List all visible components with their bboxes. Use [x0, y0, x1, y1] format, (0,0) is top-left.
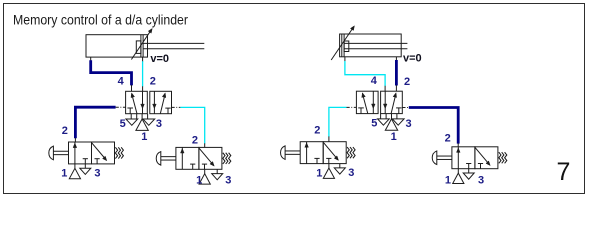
valve 1S2 left box flow arrow 1-2 [181, 147, 185, 169]
valve 1S1 port1 stub [74, 164, 76, 168]
svg-text:1: 1 [445, 174, 451, 186]
label 3 valve 1S1 [94, 167, 100, 179]
svg-text:2: 2 [150, 75, 156, 87]
valve 2S2 pushbutton [432, 151, 452, 165]
valve 1V left box blocked port 5 (T) [127, 108, 133, 114]
border frame [4, 4, 585, 194]
svg-text:3: 3 [406, 118, 412, 130]
valve 1V pilot line 12 (dash-dot) [172, 106, 181, 108]
wire 2S1 port2 to 2V pilot14 (cyan) [329, 107, 347, 141]
svg-text:5: 5 [371, 117, 377, 129]
valve 1S1 right box [92, 142, 115, 164]
valve 2S2 supply triangle port 1 [453, 173, 464, 183]
svg-text:2: 2 [192, 134, 198, 146]
svg-text:2: 2 [404, 76, 410, 88]
svg-text:3: 3 [156, 118, 162, 130]
valve 2V pilot line 14 (dash-dot) [347, 106, 357, 108]
label 1 valve 1V [141, 131, 147, 143]
label 5 valve 1V [120, 118, 126, 130]
valve 1S2 right box blocked port 1 (T) [202, 164, 207, 169]
valve 1V right box [150, 91, 172, 113]
valve 2V left box [356, 91, 378, 113]
valve 2V left box flow line with down arrow [372, 91, 376, 113]
cylinder 1A cushion [136, 41, 141, 54]
valve 1V right box flow line with down arrow [153, 91, 157, 113]
wire cyl-2A right port to 2V port2 (navy) [395, 60, 398, 91]
valve 2S2 left box blocked port 3 (T) [466, 164, 471, 169]
valve 2S2 port3 stub [468, 169, 470, 173]
valve 1V supply triangle port 1 [136, 119, 148, 130]
valve 2V exhaust triangle port 3 [392, 119, 404, 125]
valve 2S1 right box exhaust arrow 2-3 [324, 143, 339, 161]
wire 1S1 port2 to 1V pilot14 (navy) [75, 107, 115, 142]
cylinder 2A piston [342, 34, 344, 57]
wire cyl-2A left port to 2V port4 (cyan) [345, 61, 385, 91]
svg-text:2: 2 [314, 125, 320, 137]
cylinder 1A piston [141, 35, 143, 57]
cylinder 1A piston rod [143, 43, 204, 48]
wire 2S2 port2 to 2V pilot12 (navy) [409, 108, 458, 147]
valve 2S2 right box blocked port 1 (T) [478, 164, 483, 169]
page number 7 [557, 158, 571, 186]
label v=0 cylinder 2A [403, 53, 422, 65]
valve 1V bottom port stubs [131, 114, 147, 119]
valve 1S1 left box [69, 142, 92, 164]
valve 1S2 right box exhaust arrow 2-3 [199, 148, 214, 166]
valve 1S2 port1 stub [204, 169, 206, 173]
svg-text:3: 3 [348, 167, 354, 179]
valve 2V bottom port stubs [381, 114, 397, 119]
valve 1S2 supply triangle port 1 [199, 174, 210, 184]
cylinder 2A port stubs [345, 57, 397, 62]
valve 1V left box flow arrow 1-4 [131, 93, 137, 114]
valve 1S1 pushbutton [49, 146, 69, 160]
valve 2S1 exhaust triangle port 3 [334, 168, 345, 174]
label 3 valve 2V [406, 118, 412, 130]
label 4 valve 2V [371, 75, 378, 87]
label 1 valve 2S1 [316, 168, 322, 180]
valve 2S1 return spring [347, 147, 355, 158]
label 3 valve 2S2 [478, 175, 484, 187]
valve 2S1 right box [323, 142, 346, 164]
svg-text:1: 1 [61, 167, 67, 179]
svg-text:3: 3 [94, 167, 100, 179]
valve 1V left box [126, 91, 148, 113]
wire cyl-1A right port to 1V port2 (cyan) [142, 61, 144, 91]
svg-text:1: 1 [196, 175, 202, 187]
label 1 valve 2V [391, 131, 397, 143]
valve 2S2 exhaust triangle port 3 [463, 173, 474, 179]
label 2 valve 2V [404, 76, 410, 88]
valve 2V exhaust triangle port 5 [378, 119, 390, 125]
svg-text:3: 3 [478, 175, 484, 187]
svg-text:4: 4 [118, 75, 125, 87]
svg-text:1: 1 [141, 131, 147, 143]
svg-text:1: 1 [391, 131, 397, 143]
svg-text:1: 1 [316, 168, 322, 180]
valve 2V right box flow line with down arrow [383, 91, 387, 113]
valve 2S2 right box exhaust arrow 2-3 [475, 148, 490, 166]
cylinder 1A body [86, 35, 148, 57]
label 1 valve 1S1 [61, 167, 67, 179]
svg-text:4: 4 [371, 75, 378, 87]
cylinder 2A piston rod [344, 43, 407, 48]
label v=0 cylinder 1A [150, 53, 169, 65]
valve 1S2 left box [176, 147, 199, 169]
valve 2S2 return spring [499, 152, 507, 163]
valve 2S2 left box [452, 147, 475, 169]
label 3 valve 1V [156, 118, 162, 130]
valve 1S2 port3 stub [216, 169, 218, 173]
valve 2S1 left box blocked port 3 (T) [314, 158, 319, 163]
valve 1V right box blocked port (T) [165, 108, 170, 114]
valve 2V left box flow arrow up [362, 93, 368, 114]
label 2 valve 2S2 [445, 133, 451, 145]
cylinder 2A cushion-adjust arrow [331, 26, 354, 60]
valve 1S2 exhaust triangle port 3 [212, 174, 223, 180]
title text [13, 12, 188, 28]
valve 1V exhaust triangle port 5 [126, 119, 138, 125]
valve 1S1 left box blocked port 3 (T) [83, 159, 88, 164]
valve 2V pilot line 12 (dash-dot) [402, 107, 409, 109]
valve 2S1 port3 stub [339, 164, 341, 168]
label 4 valve 1V [118, 75, 125, 87]
valve 2V right box flow arrow 1-2 [391, 93, 396, 114]
cylinder 2A body [340, 34, 402, 57]
cylinder 1A cushion-adjust arrow [131, 29, 152, 60]
valve 2S1 left box flow arrow 1-2 [305, 142, 309, 164]
valve 1V exhaust triangle port 3 [143, 119, 155, 125]
label 2 valve 1S1 [62, 125, 68, 137]
valve 1S1 right box blocked port 1 (T) [95, 159, 100, 164]
svg-text:2: 2 [62, 125, 68, 137]
label 3 valve 2S1 [348, 167, 354, 179]
valve 1S2 pushbutton [156, 152, 176, 166]
label 3 valve 1S2 [225, 175, 231, 187]
valve 2V left box blocked port (T) [358, 108, 364, 114]
cylinder 2A cushion [344, 41, 349, 52]
wire cyl-1A left port to 1V port4 (navy) [91, 60, 132, 91]
valve 1V pilot line 14 (dash-dot) [116, 106, 126, 108]
svg-text:v=0: v=0 [150, 53, 169, 65]
label 2 valve 1S2 [192, 134, 198, 146]
valve 1S1 return spring [115, 147, 123, 158]
svg-text:5: 5 [120, 118, 126, 130]
valve 2S2 left box flow arrow 1-2 [457, 147, 461, 169]
wire 1S2 port2 to 1V pilot12 (cyan) [180, 107, 204, 147]
valve 2S2 port1 stub [457, 169, 459, 173]
valve 2S1 supply triangle port 1 [323, 168, 334, 178]
svg-text:Memory control of a d/a cylind: Memory control of a d/a cylinder [13, 12, 188, 28]
valve 1S1 left box flow arrow 1-2 [73, 142, 77, 164]
valve 2V right box [381, 91, 403, 113]
valve 1S2 return spring [223, 153, 231, 164]
valve 2V supply triangle port 1 [385, 119, 397, 130]
valve 1V left box flow line 2-1 with arrow [141, 91, 145, 113]
valve 2S2 right box [475, 147, 498, 169]
label 2 valve 1V [150, 75, 156, 87]
valve 1S1 right box exhaust arrow 2-3 [92, 143, 107, 161]
svg-text:v=0: v=0 [403, 53, 422, 65]
valve 2S1 right box blocked port 1 (T) [326, 158, 331, 163]
label 1 valve 2S2 [445, 174, 451, 186]
valve 1V right box flow arrow up [160, 93, 165, 114]
valve 1S1 port3 stub [84, 164, 86, 168]
label 5 valve 2V [371, 117, 377, 129]
valve 1S1 supply triangle port 1 [69, 168, 80, 178]
valve 1S2 left box blocked port 3 (T) [190, 164, 195, 169]
cylinder 1A port stubs [91, 57, 143, 62]
valve 2S1 port1 stub [328, 164, 330, 168]
valve 1S1 exhaust triangle port 3 [80, 168, 91, 174]
svg-text:2: 2 [445, 133, 451, 145]
label 2 valve 2S1 [314, 125, 320, 137]
valve 2S1 pushbutton [281, 146, 301, 160]
svg-text:3: 3 [225, 175, 231, 187]
valve 2V right box blocked port (T) [396, 108, 401, 114]
svg-text:7: 7 [557, 158, 571, 186]
valve 1S2 right box [199, 147, 222, 169]
label 1 valve 1S2 [196, 175, 202, 187]
valve 2S1 left box [300, 142, 323, 164]
